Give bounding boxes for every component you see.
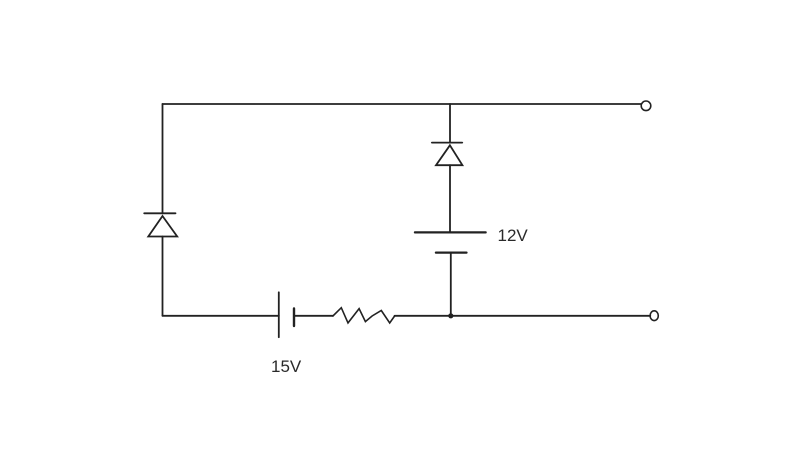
wire: battery to resistor xyxy=(294,315,333,317)
terminal top-right xyxy=(641,101,651,111)
svg-text:15V: 15V xyxy=(271,357,302,376)
battery B2 12V long plate xyxy=(415,231,486,233)
wire: middle branch top xyxy=(449,104,451,143)
terminal bottom-right xyxy=(650,311,658,321)
diode D1 (left) cathode bar xyxy=(144,212,175,214)
wire: diode D2 to battery xyxy=(449,165,451,232)
wire: bottom rail left xyxy=(163,315,279,317)
diode D2 (middle) cathode bar xyxy=(432,142,462,144)
wire: resistor to junction xyxy=(395,315,451,317)
wire: bottom rail right xyxy=(451,315,651,317)
battery B1 15V long plate xyxy=(278,292,280,337)
svg-text:12V: 12V xyxy=(498,226,529,245)
wire: left branch upper xyxy=(162,104,164,213)
resistor R1 xyxy=(333,308,395,323)
wire: battery B2 to junction xyxy=(450,253,452,316)
battery B1 15V short plate xyxy=(293,309,295,327)
wire: left branch lower xyxy=(162,237,164,316)
wire: top rail xyxy=(163,103,642,105)
diode D2 (middle) triangle xyxy=(436,145,462,165)
battery B2 12V short plate xyxy=(436,252,467,254)
junction node xyxy=(448,313,453,318)
diode D1 (left) triangle xyxy=(148,216,177,237)
